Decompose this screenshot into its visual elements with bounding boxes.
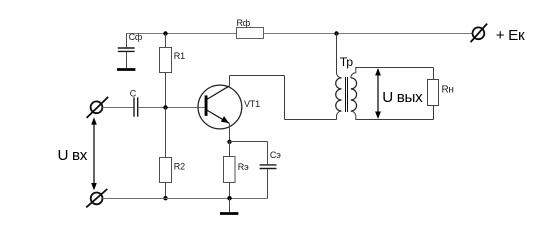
- resistor Rн: [428, 80, 439, 106]
- svg-text:Cэ: Cэ: [270, 150, 281, 160]
- capacitor C: [134, 97, 138, 116]
- svg-text:+ Eк: + Eк: [496, 27, 525, 44]
- wire: Rн to bottom: [433, 106, 435, 120]
- wire: secondary bottom lead: [351, 111, 434, 119]
- wire: right side down to Rн: [433, 68, 435, 80]
- wire: collector down to primary: [284, 76, 286, 120]
- svg-text:R2: R2: [174, 162, 185, 172]
- wire: Cэ to bottom rail: [267, 169, 269, 198]
- transistor VT1: [198, 85, 242, 129]
- wire: R1 to base node: [165, 73, 167, 108]
- svg-text:Тр: Тр: [340, 55, 353, 69]
- node: base divider junction: [163, 105, 167, 109]
- ground under Cф: [117, 68, 135, 71]
- wire: R2 to bottom rail: [165, 183, 167, 199]
- wire: drop from rail to Cф: [126, 34, 128, 48]
- wire: rail to R1: [165, 34, 167, 48]
- junction on bottom rail at Rэ: [227, 196, 231, 200]
- input terminal top: [87, 97, 109, 118]
- svg-text:U вх: U вх: [58, 147, 88, 164]
- wire: Cф to ground: [126, 52, 128, 68]
- resistor Rф: [237, 28, 264, 39]
- wire: bottom rail: [103, 198, 268, 200]
- transformer Tp primary winding: [336, 78, 342, 111]
- svg-text:Rф: Rф: [237, 18, 251, 28]
- svg-text:VT1: VT1: [244, 99, 260, 109]
- transformer Tp secondary winding: [351, 78, 357, 111]
- node: emitter junction: [227, 140, 231, 144]
- svg-text:Cф: Cф: [129, 32, 143, 42]
- resistor R1: [160, 48, 172, 73]
- wire: emitter down: [229, 123, 231, 141]
- wire: top supply rail right segment: [336, 33, 473, 35]
- wire: C to base: [138, 107, 205, 109]
- wire: collector horizontal: [230, 75, 285, 77]
- svg-text:Rн: Rн: [442, 84, 454, 95]
- wire: node to R2: [165, 108, 167, 158]
- arrow Uвх: [91, 117, 97, 190]
- resistor Rэ: [224, 157, 236, 183]
- wire: down to Cэ: [267, 142, 269, 165]
- wire: top supply rail middle segment: [264, 33, 336, 35]
- ground: [220, 212, 238, 215]
- wire: secondary top lead: [351, 68, 434, 78]
- wire: to transformer primary bottom: [285, 119, 337, 121]
- input terminal bottom: [86, 189, 107, 207]
- svg-text:Rэ: Rэ: [238, 162, 249, 172]
- arrow Uвых: [375, 68, 381, 119]
- junction on bottom rail at R2: [163, 196, 167, 200]
- wire: emitter node to Cэ: [230, 141, 268, 143]
- transformer core: [346, 77, 348, 112]
- wire: emitter node to Rэ: [229, 142, 231, 157]
- terminal +Ek: [471, 24, 488, 42]
- wire: to ground: [229, 199, 231, 213]
- capacitor Cф: [118, 48, 135, 51]
- wire: Rэ to bottom rail: [229, 183, 231, 199]
- svg-text:R1: R1: [174, 51, 185, 61]
- wire: collector up: [229, 76, 231, 86]
- svg-text:U вых: U вых: [382, 89, 423, 106]
- wire: rail down to primary winding: [337, 34, 342, 78]
- resistor R2: [160, 158, 172, 183]
- junction on rail at transformer: [334, 31, 338, 35]
- svg-text:C: C: [130, 89, 137, 99]
- wire: input terminal to C: [102, 107, 134, 109]
- wire: top supply rail left segment: [126, 33, 236, 35]
- junction on rail at R1: [163, 31, 167, 35]
- wire: primary bottom lead: [337, 111, 342, 119]
- capacitor Cэ: [260, 165, 277, 169]
